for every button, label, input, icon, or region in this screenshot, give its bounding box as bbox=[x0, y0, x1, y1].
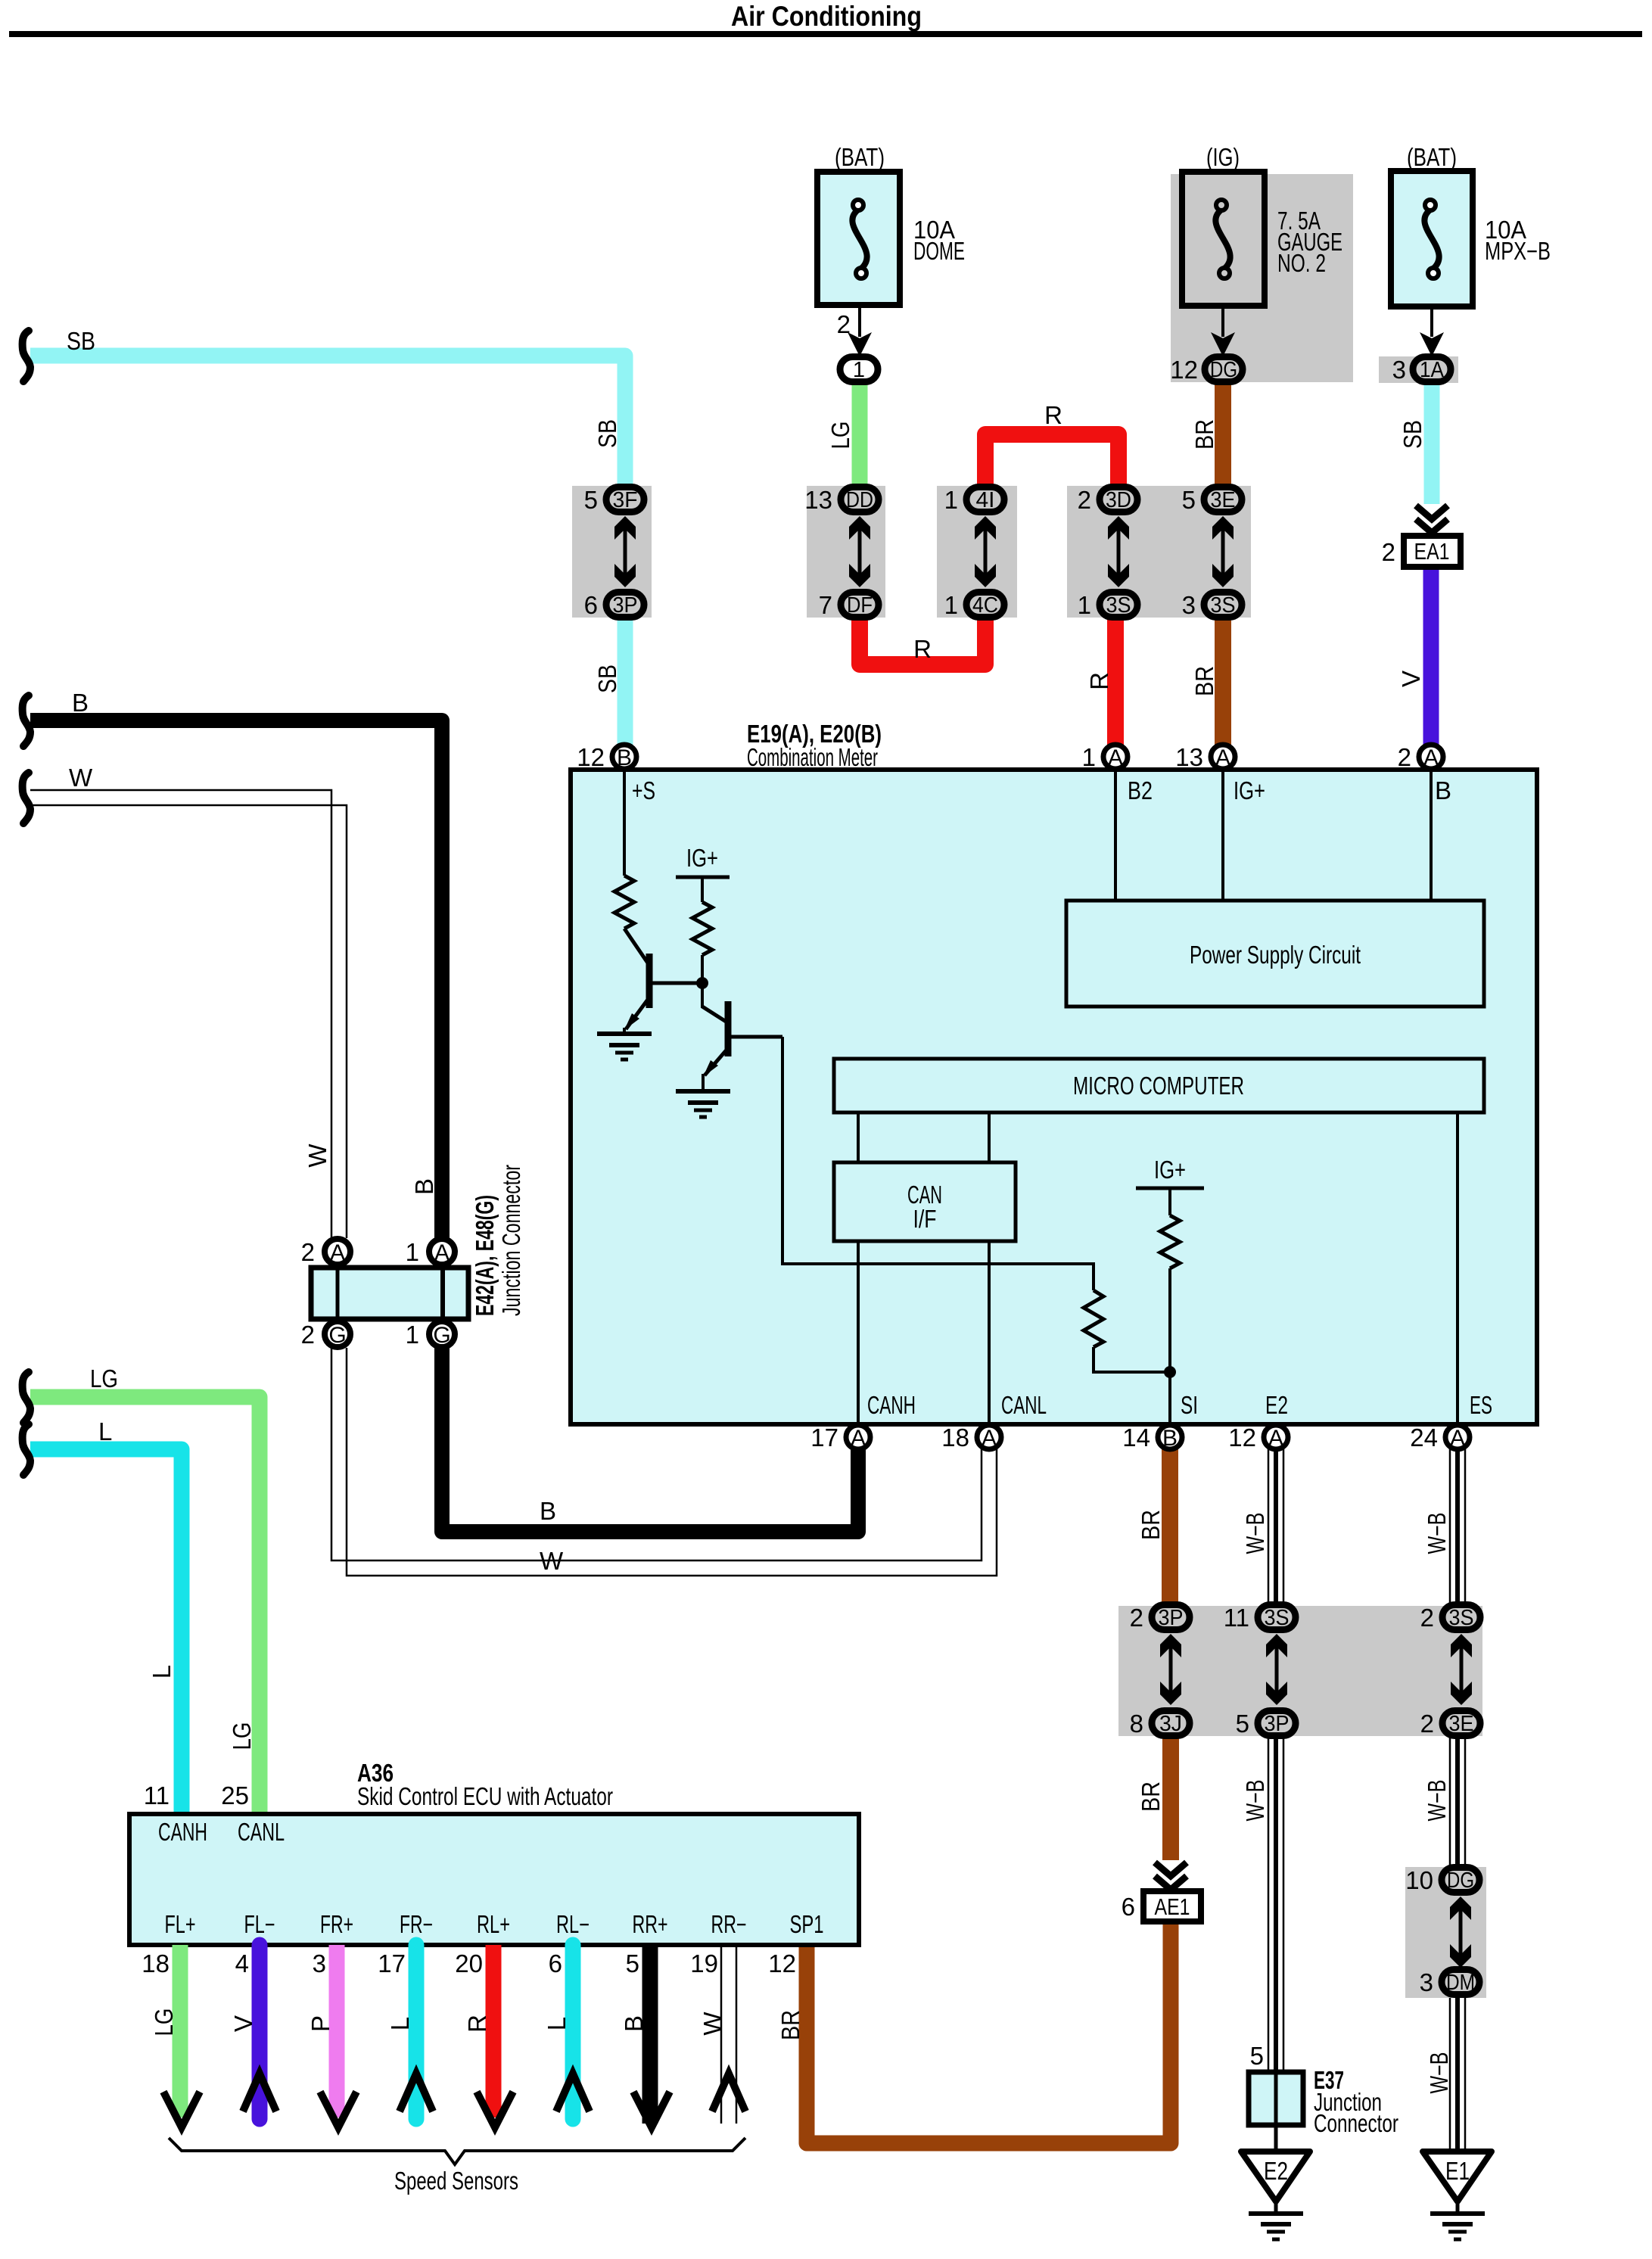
svg-text:3S: 3S bbox=[1106, 593, 1131, 618]
svg-text:W: W bbox=[303, 1144, 331, 1168]
svg-text:A: A bbox=[330, 1240, 345, 1265]
svg-text:L: L bbox=[386, 2017, 414, 2030]
node dot bbox=[696, 977, 708, 989]
svg-text:G: G bbox=[433, 1323, 450, 1348]
pin 14 B meter bbox=[1158, 1425, 1182, 1449]
wire B RR+ speed sensor bbox=[642, 1945, 658, 2124]
svg-text:4: 4 bbox=[235, 1949, 249, 1977]
wire BR 3J to AE1 chevrons bbox=[1162, 1736, 1179, 1860]
wire R2 to node bbox=[701, 955, 704, 1008]
svg-text:BR: BR bbox=[1137, 1781, 1165, 1812]
connector 3J (8) bbox=[1152, 1711, 1190, 1736]
svg-text:E42(A), E48(G): E42(A), E48(G) bbox=[471, 1195, 499, 1316]
wire W-B 3P to E37 junction connector bbox=[1268, 1736, 1283, 2072]
svg-text:EA1: EA1 bbox=[1414, 538, 1450, 565]
svg-text:+S: +S bbox=[632, 776, 655, 804]
pin 1 A meter bbox=[1103, 745, 1128, 769]
svg-text:ES: ES bbox=[1470, 1391, 1492, 1419]
wire E37 to ground E2 bbox=[1274, 2125, 1278, 2152]
svg-text:6: 6 bbox=[1122, 1893, 1135, 1921]
ground triangle E1 bbox=[1423, 2152, 1492, 2201]
svg-text:2: 2 bbox=[837, 310, 851, 338]
svg-text:7: 7 bbox=[819, 591, 832, 619]
svg-text:DG: DG bbox=[1210, 358, 1237, 382]
wire fuse MPX-B output with arrow to connector 3 1A bbox=[1430, 306, 1433, 337]
svg-text:Speed Sensors: Speed Sensors bbox=[394, 2167, 518, 2195]
resistor R3 (SI series) bbox=[1084, 1290, 1103, 1347]
svg-text:3E: 3E bbox=[1449, 1712, 1474, 1736]
svg-text:CANH: CANH bbox=[158, 1818, 207, 1846]
svg-text:1: 1 bbox=[1082, 743, 1096, 771]
svg-text:LG: LG bbox=[90, 1364, 118, 1392]
junction connector E42(A) E48(G) box bbox=[311, 1268, 468, 1319]
svg-text:L: L bbox=[98, 1417, 112, 1445]
fuse 10A DOME bbox=[817, 172, 900, 305]
svg-text:SB: SB bbox=[593, 664, 621, 693]
svg-text:BR: BR bbox=[776, 2010, 804, 2040]
svg-text:NO. 2: NO. 2 bbox=[1277, 249, 1326, 277]
wire P FR+ speed sensor bbox=[329, 1945, 345, 2117]
node SI dot bbox=[1164, 1366, 1176, 1378]
IG+ supply bar 1 bbox=[676, 876, 730, 879]
mating arrow 3P-3J bbox=[1160, 1634, 1181, 1705]
svg-text:W−B: W−B bbox=[1423, 1780, 1451, 1822]
connector EA1 box bbox=[1404, 536, 1461, 567]
svg-text:B2: B2 bbox=[1128, 776, 1153, 804]
svg-text:B: B bbox=[72, 689, 89, 717]
connector 3P (6) bbox=[606, 593, 644, 618]
svg-text:SB: SB bbox=[1398, 420, 1426, 449]
wire V EA1 to meter pin 2A bbox=[1423, 567, 1439, 746]
svg-text:RL−: RL− bbox=[556, 1910, 590, 1938]
cut symbol L bbox=[23, 1424, 30, 1475]
svg-text:19: 19 bbox=[690, 1949, 718, 1977]
svg-text:AE1: AE1 bbox=[1155, 1893, 1190, 1920]
svg-text:G: G bbox=[328, 1323, 346, 1348]
pin 24 A meter bbox=[1445, 1425, 1470, 1449]
micro computer box bbox=[834, 1059, 1484, 1112]
wire R 3S to meter pin 1A bbox=[1107, 619, 1124, 746]
svg-text:3S: 3S bbox=[1211, 593, 1236, 618]
svg-text:12: 12 bbox=[1228, 1424, 1256, 1452]
gray shade: DD/DF pair bbox=[807, 486, 885, 618]
connector 3F (5) bbox=[606, 487, 644, 512]
svg-text:(BAT): (BAT) bbox=[835, 143, 885, 171]
svg-text:W−B: W−B bbox=[1425, 2052, 1453, 2094]
wire SB fuse MPX-B to EA1 bbox=[1424, 383, 1440, 504]
svg-text:LG: LG bbox=[826, 422, 854, 450]
svg-text:SI: SI bbox=[1181, 1391, 1198, 1419]
svg-text:DOME: DOME bbox=[913, 237, 965, 265]
wire LG FL+ speed sensor bbox=[173, 1945, 188, 2117]
svg-text:1: 1 bbox=[1078, 591, 1091, 619]
wire fuse GAUGE output with arrow to connector 12 DG bbox=[1221, 306, 1224, 337]
svg-text:5: 5 bbox=[1250, 2042, 1264, 2070]
chevron connector AE1 inline bbox=[1155, 1862, 1187, 1876]
svg-text:FR+: FR+ bbox=[320, 1910, 353, 1938]
svg-text:2: 2 bbox=[1420, 1710, 1434, 1738]
gray shade: 4I/4C pair bbox=[937, 486, 1017, 618]
svg-text:3: 3 bbox=[313, 1949, 326, 1977]
svg-text:Combination Meter: Combination Meter bbox=[747, 743, 878, 771]
pin 2 A meter bbox=[1419, 745, 1443, 769]
mating arrow 3D-3S bbox=[1108, 516, 1129, 587]
svg-text:B: B bbox=[410, 1178, 438, 1195]
svg-text:A: A bbox=[982, 1426, 997, 1451]
svg-text:B: B bbox=[1162, 1426, 1178, 1451]
mating arrow 4I-4C bbox=[975, 516, 996, 587]
svg-text:(IG): (IG) bbox=[1206, 143, 1240, 171]
gray shade: 3F/3P pair bbox=[572, 486, 652, 618]
wire B2 pin to power supply circuit bbox=[1114, 770, 1117, 901]
svg-text:3P: 3P bbox=[613, 593, 638, 618]
svg-text:1: 1 bbox=[406, 1238, 419, 1266]
svg-text:12: 12 bbox=[577, 743, 605, 771]
wire LG left cut to ECU pin 25 CANL bbox=[30, 1397, 260, 1814]
wire W left cut to junction A2 bbox=[30, 790, 331, 1238]
svg-text:W: W bbox=[540, 1547, 564, 1575]
svg-text:R: R bbox=[1085, 672, 1113, 690]
wire B junction G1 to meter pin 17A CANH bbox=[442, 1348, 858, 1532]
svg-text:5: 5 bbox=[626, 1949, 639, 1977]
svg-text:A: A bbox=[1423, 745, 1439, 770]
svg-text:MICRO COMPUTER: MICRO COMPUTER bbox=[1073, 1072, 1244, 1100]
wire B left cut to junction A1 bbox=[30, 720, 442, 1238]
svg-text:3S: 3S bbox=[1265, 1606, 1290, 1630]
svg-text:DG: DG bbox=[1447, 1868, 1474, 1893]
svg-text:MPX−B: MPX−B bbox=[1485, 237, 1551, 265]
chevron connector EA1 inline bbox=[1416, 506, 1448, 519]
ground (meter internal, Q1) bbox=[597, 1034, 652, 1059]
wire L RL- speed sensor bbox=[565, 1945, 581, 2119]
svg-text:20: 20 bbox=[455, 1949, 483, 1977]
wire BR AE1 to SP1 pin 12 of ECU bbox=[807, 1921, 1171, 2143]
svg-text:1: 1 bbox=[944, 591, 958, 619]
svg-text:IG+: IG+ bbox=[1234, 776, 1265, 804]
mating arrow DG-DM bbox=[1450, 1897, 1471, 1968]
wire W junction G2 to meter pin 18A CANL bbox=[331, 1348, 982, 1560]
svg-text:CANH: CANH bbox=[867, 1391, 916, 1419]
connector 3E (2) lower right bbox=[1442, 1711, 1480, 1736]
svg-text:SP1: SP1 bbox=[790, 1910, 824, 1938]
svg-text:5: 5 bbox=[1182, 486, 1196, 514]
mating arrow 3S-3P bbox=[1266, 1634, 1287, 1705]
cut symbol W bbox=[23, 773, 30, 823]
svg-text:R: R bbox=[913, 635, 932, 663]
connector 3P (5) lower bbox=[1258, 1711, 1296, 1736]
svg-text:13: 13 bbox=[1175, 743, 1203, 771]
connector 1 (fuse DOME) bbox=[840, 357, 878, 382]
pin 12 A meter bbox=[1264, 1425, 1288, 1449]
cut symbol LG bbox=[23, 1372, 30, 1423]
arrow in FL- bbox=[243, 2074, 276, 2111]
svg-text:IG+: IG+ bbox=[686, 844, 718, 872]
svg-text:B: B bbox=[540, 1497, 556, 1525]
wire LG fuse DOME to DD bbox=[852, 383, 868, 486]
mating arrow DD-DF bbox=[849, 516, 870, 587]
cut symbol B bbox=[23, 695, 30, 746]
svg-text:13: 13 bbox=[804, 486, 832, 514]
svg-text:1: 1 bbox=[944, 486, 958, 514]
connector DG (10) bbox=[1442, 1868, 1479, 1893]
connector 3S (1) bbox=[1100, 593, 1137, 618]
svg-text:FL−: FL− bbox=[244, 1910, 275, 1938]
svg-text:W: W bbox=[69, 764, 93, 792]
wire W-B meter pin 12A E2 to 3S bbox=[1268, 1448, 1283, 1606]
transistor Q2 bbox=[702, 1001, 782, 1077]
speed sensors brace bbox=[169, 2138, 745, 2164]
wire V FL- speed sensor bbox=[252, 1945, 268, 2119]
wire R jumper 4I to 3D bbox=[985, 434, 1118, 486]
svg-text:1: 1 bbox=[853, 358, 865, 382]
connector 3P (2) lower bbox=[1152, 1605, 1190, 1630]
arrow out RR+ bbox=[633, 2092, 670, 2127]
connector 3E (5) bbox=[1204, 487, 1242, 512]
svg-text:2: 2 bbox=[1398, 743, 1411, 771]
svg-text:5: 5 bbox=[584, 486, 598, 514]
svg-text:FL+: FL+ bbox=[165, 1910, 196, 1938]
wire Q2 base to SI resistor network bbox=[782, 1037, 1094, 1290]
svg-text:IG+: IG+ bbox=[1154, 1156, 1186, 1184]
svg-text:24: 24 bbox=[1410, 1424, 1438, 1452]
svg-text:LG: LG bbox=[228, 1722, 256, 1750]
pin 1 G junction bbox=[429, 1321, 455, 1347]
connector 3D (2) bbox=[1100, 487, 1137, 512]
connector DG (12) bbox=[1205, 357, 1243, 382]
arrow in RL- bbox=[556, 2074, 590, 2111]
connector AE1 box bbox=[1143, 1891, 1201, 1921]
wire BR 3S to meter pin 13A bbox=[1215, 619, 1231, 746]
wire BR meter pin 14B SI to 3P bbox=[1162, 1448, 1178, 1606]
svg-text:B: B bbox=[620, 2015, 648, 2032]
wire SB from left cut to 3F bbox=[30, 356, 625, 486]
svg-text:3F: 3F bbox=[613, 488, 638, 512]
IG+ supply bar 2 bbox=[1136, 1187, 1204, 1190]
svg-text:3P: 3P bbox=[1159, 1606, 1184, 1630]
svg-text:18: 18 bbox=[941, 1424, 969, 1452]
svg-text:A: A bbox=[851, 1426, 866, 1451]
svg-text:A: A bbox=[1215, 745, 1230, 770]
wire micro computer to CAN I/F left bbox=[857, 1112, 860, 1162]
connector DF (7) bbox=[841, 593, 879, 618]
transistor Q1 bbox=[624, 929, 699, 1030]
svg-text:Air Conditioning: Air Conditioning bbox=[731, 1, 922, 32]
arrow in FR- bbox=[400, 2074, 433, 2111]
connector 3S (11) lower bbox=[1258, 1605, 1296, 1630]
arrow in RR- bbox=[712, 2074, 745, 2111]
connector 1A (3) bbox=[1413, 357, 1451, 382]
svg-text:V: V bbox=[1397, 671, 1425, 687]
svg-text:2: 2 bbox=[301, 1238, 315, 1266]
svg-text:SB: SB bbox=[593, 419, 621, 448]
wire R3 to SI node bbox=[1094, 1347, 1170, 1372]
mating arrow 3S-3E bbox=[1451, 1634, 1472, 1705]
svg-text:A: A bbox=[1268, 1426, 1283, 1451]
skid control ECU box A36 bbox=[129, 1814, 859, 1945]
svg-text:12: 12 bbox=[768, 1949, 796, 1977]
gray shade: 3P/3J 3S/3P 3S/3E pairs bbox=[1118, 1606, 1482, 1736]
svg-text:6: 6 bbox=[549, 1949, 562, 1977]
svg-text:10: 10 bbox=[1405, 1866, 1433, 1894]
wire micro computer to ES pin bbox=[1456, 1112, 1459, 1424]
svg-text:1: 1 bbox=[406, 1321, 419, 1349]
pin 12 B meter bbox=[612, 745, 636, 769]
wire CAN I/F to CANL pin bbox=[988, 1241, 991, 1424]
wire IG+ pin to power supply circuit bbox=[1221, 770, 1224, 901]
wire R jumper DF to 4C bbox=[860, 618, 985, 664]
svg-text:2: 2 bbox=[1078, 486, 1091, 514]
svg-text:3E: 3E bbox=[1211, 488, 1236, 512]
CAN I/F box bbox=[834, 1162, 1016, 1241]
ground triangle E2 bbox=[1241, 2152, 1310, 2201]
svg-text:R: R bbox=[463, 2015, 491, 2033]
svg-text:L: L bbox=[543, 2017, 571, 2030]
connector 4I (1) bbox=[966, 487, 1004, 512]
pin 2 A junction bbox=[325, 1239, 350, 1265]
mating arrow 3E-3S bbox=[1212, 516, 1234, 587]
svg-text:17: 17 bbox=[810, 1424, 838, 1452]
gray shade: 1A connector bbox=[1379, 356, 1458, 383]
ground symbol E1 bbox=[1430, 2214, 1485, 2239]
pin 13 A meter bbox=[1211, 745, 1235, 769]
pin 18 A meter bbox=[977, 1425, 1001, 1449]
svg-text:3: 3 bbox=[1392, 356, 1406, 384]
svg-text:CANL: CANL bbox=[1001, 1391, 1047, 1419]
arrow out FL+ bbox=[163, 2092, 200, 2127]
svg-text:RR+: RR+ bbox=[633, 1910, 668, 1938]
svg-text:4C: 4C bbox=[972, 593, 998, 618]
svg-text:2: 2 bbox=[1420, 1604, 1434, 1632]
svg-text:W: W bbox=[698, 2012, 726, 2036]
svg-text:DM: DM bbox=[1446, 1971, 1475, 1995]
pin 1 A junction bbox=[429, 1239, 455, 1265]
pin 17 A meter bbox=[846, 1425, 870, 1449]
svg-text:DF: DF bbox=[847, 593, 873, 618]
wire W-B DM to ground E1 bbox=[1450, 1998, 1465, 2152]
svg-text:2: 2 bbox=[301, 1321, 315, 1349]
svg-text:L: L bbox=[148, 1665, 176, 1679]
svg-text:W−B: W−B bbox=[1423, 1513, 1451, 1554]
connector DM (3) bbox=[1442, 1970, 1479, 1995]
wire SB 3P to meter pin 12B bbox=[618, 619, 633, 746]
svg-text:2: 2 bbox=[1382, 538, 1395, 566]
svg-text:W−B: W−B bbox=[1241, 1513, 1269, 1554]
svg-text:E1: E1 bbox=[1445, 2157, 1470, 2185]
svg-text:17: 17 bbox=[378, 1949, 406, 1977]
wire micro computer to CAN I/F right bbox=[988, 1112, 991, 1162]
svg-text:Power Supply Circuit: Power Supply Circuit bbox=[1190, 941, 1361, 969]
wire R RL+ speed sensor bbox=[486, 1945, 502, 2117]
svg-text:11: 11 bbox=[1224, 1604, 1249, 1632]
combination meter box E19(A) E20(B) bbox=[571, 770, 1537, 1424]
svg-text:E2: E2 bbox=[1264, 2157, 1288, 2185]
wire B pin to power supply circuit bbox=[1430, 770, 1433, 901]
svg-text:RR−: RR− bbox=[711, 1910, 747, 1938]
svg-text:E2: E2 bbox=[1265, 1391, 1288, 1419]
wire W-B 3E to DG bbox=[1450, 1736, 1465, 1867]
ground (meter internal, Q2) bbox=[676, 1091, 730, 1117]
connector DD (13) bbox=[841, 487, 879, 512]
svg-text:A: A bbox=[434, 1240, 450, 1265]
svg-text:R: R bbox=[1044, 401, 1062, 429]
svg-text:FR−: FR− bbox=[400, 1910, 433, 1938]
wire Q2 emitter to ground bbox=[702, 1074, 705, 1091]
svg-text:3P: 3P bbox=[1265, 1712, 1290, 1736]
svg-text:CANL: CANL bbox=[238, 1818, 285, 1846]
wire L FR- speed sensor bbox=[409, 1945, 425, 2119]
gray shade: GAUGE fuse block bbox=[1171, 174, 1353, 382]
svg-text:Skid Control ECU with Actuator: Skid Control ECU with Actuator bbox=[357, 1782, 613, 1810]
wire W-B meter pin 24A ES to 3S bbox=[1450, 1448, 1465, 1606]
svg-text:A: A bbox=[1450, 1426, 1465, 1451]
svg-text:W−B: W−B bbox=[1241, 1780, 1269, 1822]
svg-text:25: 25 bbox=[221, 1781, 249, 1809]
svg-text:12: 12 bbox=[1170, 356, 1198, 384]
fuse 10A MPX-B bbox=[1391, 171, 1473, 306]
svg-text:RL+: RL+ bbox=[477, 1910, 510, 1938]
resistor R4 (IG+ to SI) bbox=[1160, 1215, 1180, 1268]
svg-text:BR: BR bbox=[1190, 666, 1218, 696]
svg-text:BR: BR bbox=[1190, 419, 1218, 450]
svg-text:B: B bbox=[617, 745, 632, 770]
connector 3S (2) lower right bbox=[1442, 1605, 1480, 1630]
cut symbol SB bbox=[23, 331, 30, 381]
svg-text:4I: 4I bbox=[976, 488, 995, 512]
connector 3S (3) bbox=[1204, 593, 1242, 618]
fuse 7.5A GAUGE NO.2 bbox=[1182, 172, 1265, 306]
title rule bbox=[9, 31, 1642, 37]
svg-text:A: A bbox=[1108, 745, 1123, 770]
wire BR fuse GAUGE to 3E bbox=[1215, 383, 1231, 486]
svg-text:3: 3 bbox=[1182, 591, 1196, 619]
svg-text:Connector: Connector bbox=[1314, 2109, 1398, 2137]
wire W RR- speed sensor bbox=[720, 1945, 723, 2124]
svg-text:2: 2 bbox=[1130, 1604, 1143, 1632]
resistor R2 (IG+ pull) bbox=[692, 902, 712, 955]
svg-text:BR: BR bbox=[1137, 1510, 1165, 1540]
ground symbol E2 bbox=[1249, 2214, 1303, 2239]
svg-text:3: 3 bbox=[1420, 1968, 1433, 1996]
svg-text:DD: DD bbox=[846, 488, 873, 512]
mating arrow 3F-3P bbox=[614, 516, 636, 587]
gray shade: DG/DM pair bbox=[1405, 1867, 1486, 1998]
resistor R1 (+S pull) bbox=[614, 876, 634, 929]
gray shade: 3D/3S 3E/3S pairs bbox=[1067, 486, 1251, 618]
svg-text:11: 11 bbox=[144, 1781, 170, 1809]
svg-text:LG: LG bbox=[150, 2009, 178, 2037]
wire L left cut to ECU pin 11 CANH bbox=[30, 1449, 182, 1814]
wire fuse DOME output with arrow to connector 1 bbox=[858, 305, 861, 337]
power supply circuit box bbox=[1066, 901, 1484, 1007]
wire R4 to SI pin bbox=[1168, 1268, 1171, 1424]
connector 4C (1) bbox=[966, 593, 1004, 618]
svg-text:3S: 3S bbox=[1449, 1606, 1474, 1630]
arrow out FR+ bbox=[320, 2092, 356, 2127]
svg-text:14: 14 bbox=[1122, 1424, 1150, 1452]
wire Q1 emitter to ground bbox=[623, 1028, 626, 1034]
svg-text:8: 8 bbox=[1130, 1710, 1143, 1738]
svg-text:3D: 3D bbox=[1106, 488, 1131, 512]
svg-text:B: B bbox=[1435, 776, 1451, 804]
svg-text:V: V bbox=[229, 2015, 257, 2032]
svg-text:1A: 1A bbox=[1420, 358, 1445, 382]
wire CAN I/F to CANH pin bbox=[857, 1241, 860, 1424]
svg-text:5: 5 bbox=[1236, 1710, 1249, 1738]
svg-text:I/F: I/F bbox=[913, 1205, 937, 1233]
svg-text:6: 6 bbox=[584, 591, 598, 619]
svg-text:P: P bbox=[306, 2015, 334, 2032]
junction connector E37 box bbox=[1249, 2072, 1303, 2125]
